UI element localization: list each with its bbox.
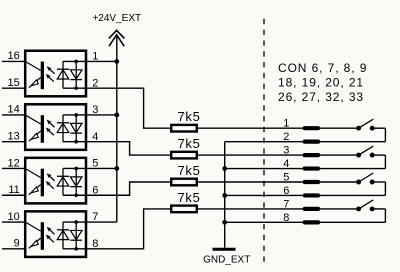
resistor R3 7k5 [171,179,197,186]
svg-text:16: 16 [8,50,20,62]
junction dot gnd/row8 [222,220,227,225]
row 2 connector pin [303,140,321,144]
pin 14 wire [2,114,25,116]
optocoupler U4 box [25,211,86,257]
junction dots on LED branch of U2 [74,113,78,117]
wire bracket pair 3-4 [384,155,386,168]
row 2 wire [225,141,386,143]
optocoupler U3 box [25,158,86,204]
pin 10 wire [2,221,25,223]
row 3 wire [198,154,356,156]
svg-text:8: 8 [283,212,289,224]
pin 16 wire [2,60,25,62]
svg-text:6: 6 [283,185,289,197]
resistor R2 7k5 [171,152,197,159]
phototransistor of U4 [41,222,44,250]
ground symbol GND_EXT [213,248,236,251]
LED pair of U2 [62,115,64,142]
row 5 connector pin [303,180,321,184]
junction dot gnd/row4 [222,166,227,171]
resistor R4 7k5 [171,206,197,213]
LED pair of U1 [62,61,64,88]
row 7 wire [198,208,356,210]
light arrows of U2 [47,120,52,125]
svg-text:12: 12 [8,157,20,169]
pin 9 wire [2,248,25,250]
svg-text:10: 10 [8,211,20,223]
svg-text:15: 15 [8,77,20,89]
pin 12 wire [2,167,25,169]
svg-text:1: 1 [283,118,289,130]
phototransistor of U3 [41,169,44,197]
svg-text:7k5: 7k5 [178,190,201,205]
row 7 connector pin [303,207,321,211]
row 5 wire after switch [374,181,385,183]
row 7 wire after switch [374,208,385,210]
junction dots on LED branch of U1 [74,60,78,64]
row 8 wire [225,221,386,223]
wire pin 8 to resistor R4 [63,209,170,249]
light arrows of U4 [47,227,52,232]
row 1 wire [198,127,356,129]
connector boundary dashed line [263,19,265,262]
svg-text:14: 14 [8,104,20,116]
row 3 connector pin [303,153,321,157]
LED pair of U4 [62,222,64,249]
row 5 wire [198,181,356,183]
wire bracket pair 1-2 [384,128,386,141]
LED pair of U3 [62,168,64,195]
wire pin 7 to +24V bus [63,221,117,223]
junction dot gnd/row6 [222,193,227,198]
svg-text:7k5: 7k5 [178,163,201,178]
junction dot bus/pin1 [114,59,119,64]
pin 11 wire [2,194,25,196]
junction dots on LED branch of U4 [74,220,78,224]
wire pin 5 to +24V bus [63,167,117,169]
wire bracket pair 5-6 [384,182,386,195]
svg-text:13: 13 [8,131,20,143]
pin 13 wire [2,141,25,143]
svg-text:+24V_EXT: +24V_EXT [92,13,141,24]
wire pin 2 to resistor R1 [63,88,170,128]
row 8 connector pin [303,220,321,224]
wire +24V bus [116,35,118,222]
svg-text:4: 4 [283,158,289,170]
svg-text:9: 9 [14,238,20,250]
switch S1 [356,126,361,131]
phototransistor of U2 [41,115,44,143]
row 4 connector pin [303,166,321,170]
wire pin 3 to +24V bus [63,114,117,116]
svg-text:3: 3 [283,145,289,157]
svg-text:7k5: 7k5 [178,136,201,151]
row 1 connector pin [303,126,321,130]
wire GND bus [224,142,226,248]
svg-text:GND_EXT: GND_EXT [203,254,250,265]
row 6 connector pin [303,193,321,197]
svg-text:2: 2 [283,131,289,143]
svg-text:7: 7 [283,198,289,210]
row 4 wire [225,168,386,170]
svg-text:11: 11 [8,184,19,196]
wire pin 1 to +24V bus [63,60,117,62]
row 3 wire after switch [374,154,385,156]
switch S4 [356,206,361,211]
switch S2 [356,153,361,158]
svg-text:18, 19, 20, 21: 18, 19, 20, 21 [278,76,364,90]
optocoupler U1 box [25,51,86,97]
row 6 wire [225,194,386,196]
junction dots on LED branch of U3 [74,167,78,171]
switch S3 [356,180,361,185]
phototransistor of U1 [41,62,44,90]
optocoupler U2 box [25,104,86,150]
svg-text:7k5: 7k5 [178,109,201,124]
light arrows of U1 [47,66,52,71]
svg-text:CON 6, 7, 8, 9: CON 6, 7, 8, 9 [278,61,367,75]
wire pin 4 to resistor R2 [63,142,170,155]
pin 15 wire [2,87,25,89]
row 1 wire after switch [374,127,385,129]
power arrow +24V_EXT [109,30,125,38]
junction dot bus/pin3 [114,113,119,118]
svg-text:26, 27, 32, 33: 26, 27, 32, 33 [278,90,364,104]
resistor R1 7k5 [171,125,197,132]
wire bracket pair 7-8 [384,209,386,222]
svg-text:5: 5 [283,171,289,183]
junction dot bus/pin5 [114,166,119,171]
light arrows of U3 [47,173,52,178]
wire pin 6 to resistor R3 [63,182,170,195]
